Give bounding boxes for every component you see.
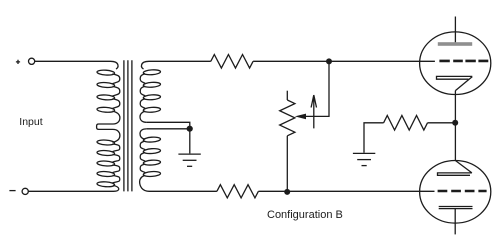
tube V2 plate lead <box>454 209 456 235</box>
minus sign <box>9 190 15 192</box>
tube V2 envelope <box>420 161 491 224</box>
svg-text:Configuration B: Configuration B <box>267 209 343 221</box>
resistor R1 <box>211 55 253 69</box>
junction dot center tap <box>187 126 193 132</box>
potentiometer P1 bottom lead <box>286 136 288 192</box>
resistor R3 <box>384 116 428 131</box>
wire R2 to V2 grid <box>258 190 434 192</box>
secondary center tap wires <box>146 122 190 153</box>
input terminal + <box>29 58 35 64</box>
wire secondary bottom to R2 <box>157 190 217 192</box>
ground center tap <box>178 154 200 166</box>
wire secondary top to R1 <box>157 60 211 62</box>
tube V1 plate <box>438 42 472 46</box>
transformer T1 primary winding <box>97 61 120 191</box>
tube V2 plate <box>439 207 473 209</box>
potentiometer P1 element <box>280 100 295 136</box>
junction node B <box>284 189 290 195</box>
potentiometer wiper arrow <box>295 114 306 120</box>
input terminal - <box>22 188 28 194</box>
transformer T1 secondary winding <box>140 61 161 191</box>
tube V2 grid <box>438 190 487 193</box>
wire junction down to wiper <box>305 61 329 116</box>
adjustment arrow <box>311 95 316 128</box>
label Input <box>19 116 42 128</box>
resistor R2 <box>217 185 259 198</box>
wire input+ to transformer primary <box>35 60 104 62</box>
tube V1 plate lead <box>454 17 456 43</box>
wire ground corner to R3 <box>364 123 384 153</box>
plus sign <box>16 60 20 64</box>
wire input- to transformer primary bottom <box>28 190 104 192</box>
ground cathode bias <box>353 153 375 165</box>
tube V2 cathode <box>438 161 472 176</box>
label Configuration B <box>267 209 343 221</box>
transformer core <box>124 60 132 191</box>
wire R3 to cathode line <box>428 122 456 124</box>
potentiometer P1 top stub <box>286 91 288 100</box>
svg-text:Input: Input <box>19 116 42 128</box>
wire cathode link V1-V2 <box>454 91 456 161</box>
junction node A <box>326 58 332 64</box>
junction node C <box>452 120 458 126</box>
wire R1 to V1 grid <box>253 60 435 62</box>
tube V1 grid <box>439 60 488 63</box>
tube V1 cathode <box>437 76 473 90</box>
tube V1 envelope <box>420 32 491 95</box>
